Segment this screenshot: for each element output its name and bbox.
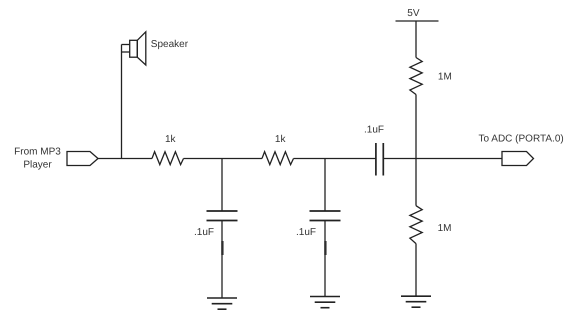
svg-text:.1uF: .1uF <box>364 124 384 135</box>
svg-text:.1uF: .1uF <box>194 227 214 238</box>
svg-text:Speaker: Speaker <box>151 39 189 50</box>
svg-text:1M: 1M <box>438 223 452 234</box>
svg-text:Player: Player <box>23 160 52 171</box>
svg-text:1M: 1M <box>438 71 452 82</box>
svg-text:1k: 1k <box>165 134 177 145</box>
svg-text:5V: 5V <box>407 8 420 19</box>
svg-text:1k: 1k <box>275 134 287 145</box>
svg-text:From MP3: From MP3 <box>14 146 61 157</box>
svg-text:To ADC (PORTA.0): To ADC (PORTA.0) <box>479 134 564 145</box>
svg-text:.1uF: .1uF <box>296 227 316 238</box>
